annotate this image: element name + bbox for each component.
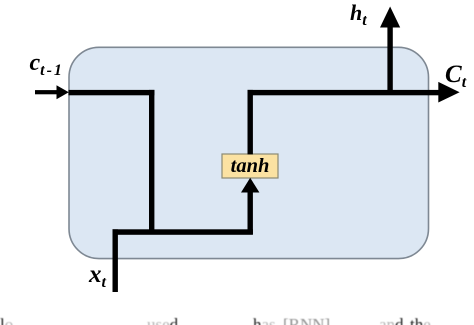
wire tanh lower vertical: [248, 190, 253, 234]
wire top-right horizontal: [248, 90, 439, 95]
label c_{t-1}: [30, 51, 64, 75]
wire V1 vertical down from H1: [149, 90, 154, 234]
arrowhead h_t output: [380, 7, 400, 28]
label C_t: [445, 62, 466, 87]
tanh box: [222, 154, 278, 178]
label tanh: [222, 155, 278, 179]
caption text (cut off at page bottom): [0, 315, 474, 325]
wire x_t vertical: [113, 229, 118, 292]
cell body rounded rectangle: [69, 47, 429, 258]
arrowhead C_t output: [438, 82, 459, 103]
label h_t: [350, 2, 367, 24]
wire H1 top-left horizontal: [69, 90, 155, 95]
wire tanh upper vertical: [248, 90, 253, 154]
wire c input arrow shaft: [35, 90, 58, 94]
arrowhead into tanh: [241, 178, 259, 193]
wire h_t vertical: [387, 27, 392, 95]
arrowhead c input: [57, 85, 69, 99]
label x_t: [89, 262, 106, 287]
wire bottom horizontal: [113, 229, 253, 235]
